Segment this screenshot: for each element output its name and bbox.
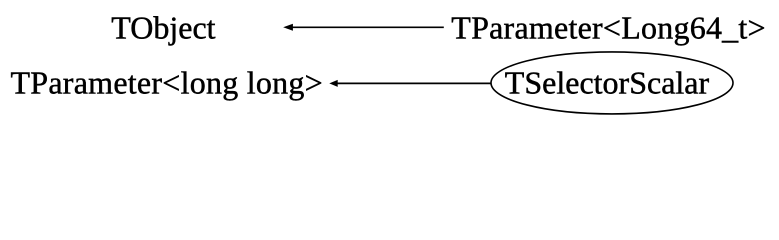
ellipse around TSelectorScalar xyxy=(491,52,733,114)
class inheritance diagram xyxy=(0,0,779,120)
arrowhead to TParameter&lt;long long&gt; xyxy=(329,80,337,87)
arrowhead to TObject xyxy=(283,24,293,31)
svg-text:TObject: TObject xyxy=(111,10,215,46)
wire inheritance arrow shaft TSelectorScalar to TParameter&lt;long long&gt; xyxy=(337,82,492,84)
wire inheritance arrow shaft TParameter&lt;Long64_t&gt; to TObject xyxy=(292,26,444,28)
svg-text:TParameter<long long>: TParameter<long long> xyxy=(11,64,323,100)
svg-text:TSelectorScalar: TSelectorScalar xyxy=(505,64,710,100)
svg-text:TParameter<Long64_t>: TParameter<Long64_t> xyxy=(451,10,765,46)
